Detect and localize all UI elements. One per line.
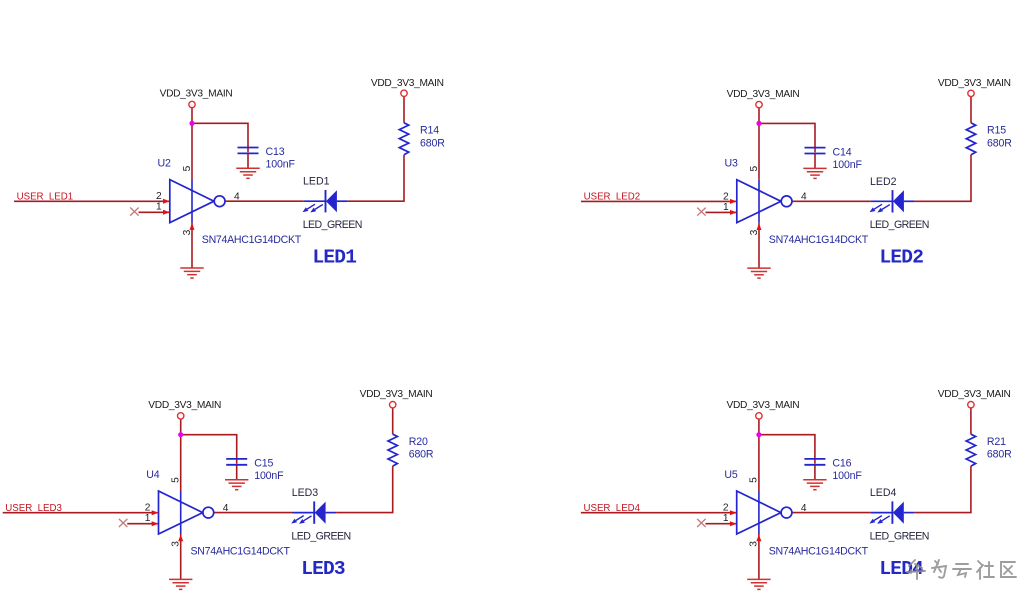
svg-text:USER_LED2: USER_LED2: [584, 192, 641, 203]
svg-text:R15: R15: [987, 125, 1006, 137]
svg-text:USER_LED3: USER_LED3: [5, 503, 62, 514]
svg-text:LED2: LED2: [880, 247, 924, 269]
svg-text:U4: U4: [146, 469, 160, 481]
svg-text:USER_LED1: USER_LED1: [17, 192, 74, 203]
svg-text:U2: U2: [158, 158, 172, 170]
svg-text:LED1: LED1: [303, 176, 330, 188]
svg-text:R20: R20: [409, 436, 428, 448]
svg-text:C14: C14: [833, 146, 852, 158]
svg-text:LED4: LED4: [870, 487, 897, 499]
svg-text:R14: R14: [420, 125, 439, 137]
svg-text:R21: R21: [987, 436, 1006, 448]
svg-text:LED2: LED2: [870, 176, 897, 188]
svg-text:LED1: LED1: [313, 247, 357, 269]
svg-text:U3: U3: [725, 158, 739, 170]
svg-text:C13: C13: [266, 146, 285, 158]
svg-text:LED3: LED3: [292, 487, 319, 499]
svg-text:LED3: LED3: [301, 558, 345, 580]
svg-text:USER_LED4: USER_LED4: [584, 503, 641, 514]
svg-text:C16: C16: [832, 458, 851, 470]
svg-text:U5: U5: [724, 469, 738, 481]
svg-text:C15: C15: [254, 458, 273, 470]
